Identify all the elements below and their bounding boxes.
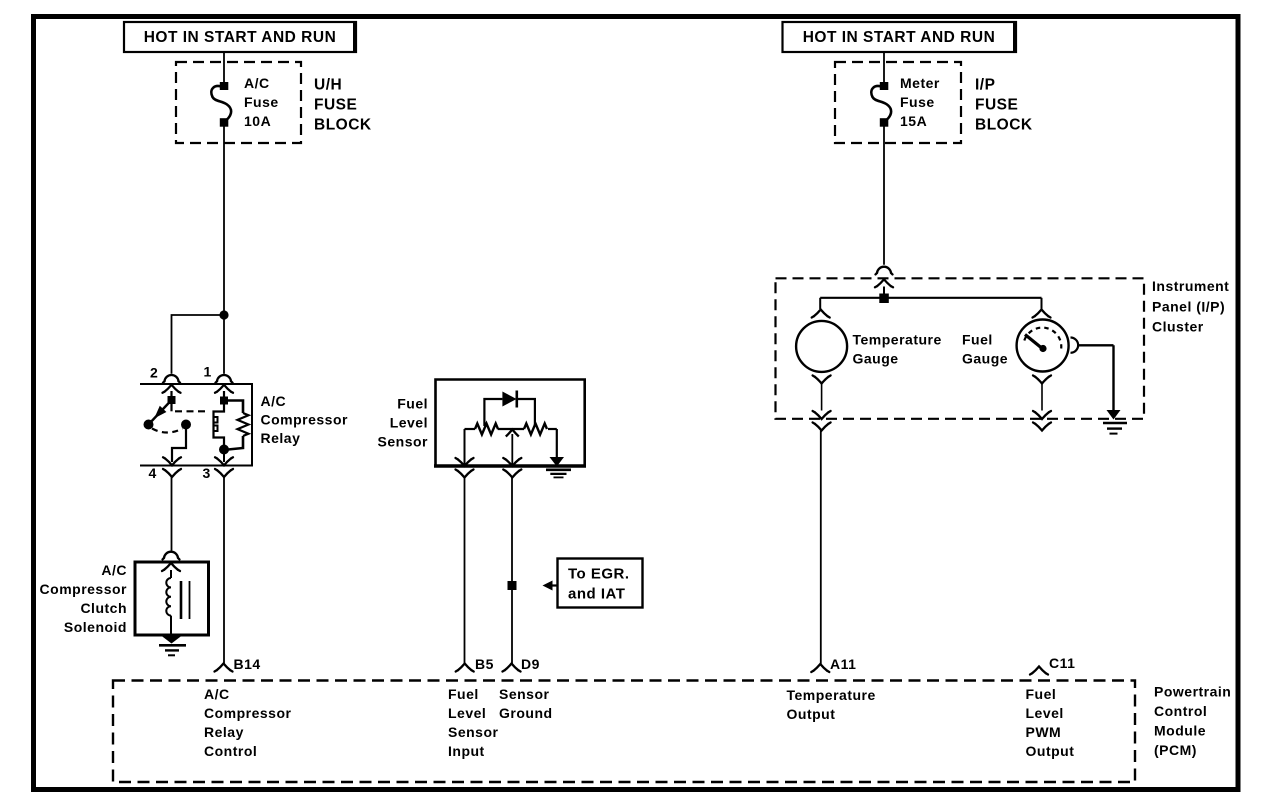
label A/C Compressor Relay Control: [204, 686, 292, 759]
svg-text:C11: C11: [1049, 655, 1075, 671]
wire: A/C fuse down to junction: [223, 126, 225, 315]
connector sensor middle pin: [503, 458, 521, 478]
wire: cluster feed bus: [820, 287, 1041, 310]
svg-text:Level: Level: [448, 705, 486, 721]
svg-text:Compressor: Compressor: [204, 705, 292, 721]
svg-text:Control: Control: [204, 743, 257, 759]
svg-text:Output: Output: [1026, 743, 1075, 759]
svg-text:Panel (I/P): Panel (I/P): [1152, 299, 1225, 315]
svg-text:and IAT: and IAT: [568, 586, 625, 603]
svg-text:Module: Module: [1154, 723, 1206, 739]
label Instrument Panel (I/P) Cluster: [1152, 278, 1229, 335]
hot-in-start-and-run banner left: [124, 22, 356, 52]
label A/C Compressor Clutch Solenoid: [40, 562, 128, 635]
sensor right pin to ground: [546, 429, 571, 477]
svg-text:Gauge: Gauge: [853, 351, 899, 367]
label Fuel Level Sensor Input: [448, 686, 499, 759]
svg-text:Sensor: Sensor: [448, 724, 499, 740]
svg-text:A/C: A/C: [244, 75, 270, 91]
svg-text:Fuel: Fuel: [962, 332, 993, 348]
svg-text:Relay: Relay: [261, 430, 301, 446]
label Fuel Level PWM Output: [1026, 686, 1075, 759]
svg-text:Output: Output: [787, 706, 836, 722]
svg-text:Solenoid: Solenoid: [64, 619, 127, 635]
wire: banner to Meter fuse: [883, 52, 885, 84]
solenoid coil: [166, 570, 171, 635]
wire: junction to relay pin 1: [223, 315, 225, 374]
connector fuel wire at cluster edge: [1033, 411, 1051, 431]
clutch plates: [181, 581, 190, 619]
svg-text:3: 3: [203, 465, 211, 481]
svg-text:BLOCK: BLOCK: [975, 117, 1033, 134]
A/C compressor clutch solenoid box: [135, 562, 209, 635]
svg-text:A/C: A/C: [261, 393, 287, 409]
label U/H FUSE BLOCK: [314, 77, 372, 134]
label Sensor Ground: [499, 686, 553, 721]
connector at solenoid top: [162, 552, 180, 571]
connector temp wire at cluster edge: [813, 411, 831, 431]
svg-text:Sensor: Sensor: [378, 434, 429, 450]
svg-text:FUSE: FUSE: [975, 97, 1018, 114]
sensor variable resistor left: [465, 424, 525, 435]
I/P fuse block dashed box: [835, 62, 961, 143]
svg-text:U/H: U/H: [314, 77, 342, 94]
svg-text:HOT IN START AND RUN: HOT IN START AND RUN: [144, 29, 337, 46]
hot-in-start-and-run banner right: [783, 22, 1017, 52]
To EGR and IAT box: [558, 559, 643, 608]
connector temperature gauge top: [812, 310, 830, 318]
svg-text:PWM: PWM: [1026, 724, 1062, 740]
wire temp gauge to cluster edge: [821, 384, 823, 411]
arrow to EGR box: [543, 581, 559, 591]
label A/C Compressor Relay: [261, 393, 349, 446]
wire: sensor middle pin to D9: [511, 478, 513, 664]
connector fuel gauge bottom: [1033, 376, 1051, 384]
connector pin 4 of relay: [163, 457, 181, 477]
wire fuel gauge to cluster edge: [1041, 384, 1043, 411]
fuse Meter 15A: [871, 82, 891, 127]
label I/P FUSE BLOCK: [975, 77, 1033, 134]
wire: temp gauge to A11: [820, 431, 822, 665]
label Powertrain Control Module (PCM): [1154, 684, 1231, 759]
label Fuel Gauge: [962, 332, 1008, 367]
ground in cluster: [1103, 410, 1127, 434]
connector pin 2 of relay: [163, 375, 181, 393]
label Meter Fuse 15A: [900, 75, 940, 129]
svg-text:To EGR.: To EGR.: [568, 566, 630, 583]
wire: relay pin 3 down to B14: [223, 477, 225, 664]
svg-text:Fuse: Fuse: [900, 94, 935, 110]
svg-text:Fuel: Fuel: [397, 396, 428, 412]
connector sensor left pin: [456, 458, 474, 478]
connector B14: [215, 664, 233, 672]
svg-text:(PCM): (PCM): [1154, 742, 1197, 758]
label Temperature Gauge: [853, 332, 942, 367]
svg-text:Compressor: Compressor: [40, 581, 128, 597]
connector A11: [811, 664, 829, 672]
fuel gauge ground wire: [1071, 338, 1114, 411]
temperature gauge circle: [796, 321, 847, 372]
svg-text:Control: Control: [1154, 703, 1207, 719]
sensor left pin wire: [464, 429, 466, 466]
svg-text:Meter: Meter: [900, 75, 940, 91]
svg-text:Relay: Relay: [204, 724, 244, 740]
svg-text:Powertrain: Powertrain: [1154, 684, 1231, 700]
relay coil parallel resistor: [226, 401, 249, 450]
connector pin 3 of relay: [215, 457, 233, 477]
svg-text:A/C: A/C: [101, 562, 127, 578]
connector C11: [1030, 667, 1048, 675]
connector at cluster top: [875, 267, 893, 288]
svg-text:D9: D9: [521, 656, 540, 672]
wiper arrow: [506, 430, 519, 467]
svg-text:Fuse: Fuse: [244, 94, 279, 110]
junction node above relay: [219, 310, 228, 319]
diode inside sensor: [484, 391, 535, 427]
svg-text:15A: 15A: [900, 113, 927, 129]
svg-text:Fuel: Fuel: [1026, 686, 1057, 702]
svg-text:Sensor: Sensor: [499, 686, 550, 702]
fuse A/C 10A: [211, 82, 231, 127]
sensor variable resistor right: [524, 424, 557, 435]
connector D9: [503, 664, 521, 672]
svg-text:FUSE: FUSE: [314, 97, 357, 114]
svg-text:Input: Input: [448, 743, 485, 759]
svg-text:Temperature: Temperature: [853, 332, 942, 348]
svg-text:Ground: Ground: [499, 705, 553, 721]
connector temperature gauge bottom: [813, 376, 831, 384]
label A/C Fuse 10A: [244, 75, 279, 129]
U/H fuse block dashed box: [176, 62, 301, 143]
wire coil to pin 3: [223, 454, 225, 462]
relay coil: [214, 391, 230, 455]
svg-text:1: 1: [204, 364, 212, 380]
svg-text:I/P: I/P: [975, 77, 995, 94]
relay switch throw contact and dashed travel arc: [152, 420, 191, 463]
wire: relay pin 4 down to solenoid: [171, 477, 173, 551]
junction node on D9 wire: [508, 581, 517, 590]
instrument panel cluster dashed box: [776, 278, 1145, 419]
connector pin 1 of relay: [215, 375, 233, 393]
svg-text:Level: Level: [390, 415, 428, 431]
fuel gauge circle with dial: [1017, 320, 1069, 372]
svg-text:10A: 10A: [244, 113, 271, 129]
wire: Meter fuse down to cluster: [883, 126, 885, 265]
svg-text:Level: Level: [1026, 705, 1064, 721]
label To EGR and IAT: [568, 566, 630, 603]
svg-text:Clutch: Clutch: [80, 600, 127, 616]
label Fuel Level Sensor: [378, 396, 429, 450]
svg-text:Temperature: Temperature: [787, 687, 876, 703]
svg-text:HOT IN START AND RUN: HOT IN START AND RUN: [803, 29, 996, 46]
svg-text:4: 4: [149, 465, 157, 481]
svg-text:Fuel: Fuel: [448, 686, 479, 702]
fuel level sensor box: [434, 380, 586, 467]
label Temperature Output: [787, 687, 876, 722]
powertrain control module dashed box: [113, 681, 1135, 783]
connector fuel gauge top: [1033, 310, 1051, 318]
svg-text:Gauge: Gauge: [962, 351, 1008, 367]
svg-text:Cluster: Cluster: [1152, 319, 1204, 335]
wire: banner to A/C fuse: [223, 52, 225, 84]
svg-text:B5: B5: [475, 656, 494, 672]
A/C compressor relay box (open left side): [140, 384, 252, 466]
svg-text:A/C: A/C: [204, 686, 230, 702]
dashed mechanical link to coil: [172, 404, 209, 411]
svg-text:Instrument: Instrument: [1152, 278, 1229, 294]
relay switch contact from pin 2: [144, 391, 176, 430]
svg-text:BLOCK: BLOCK: [314, 117, 372, 134]
ground below solenoid: [159, 636, 186, 656]
svg-text:A11: A11: [830, 656, 856, 672]
wire: sensor left pin to B5: [464, 478, 466, 664]
svg-text:Compressor: Compressor: [261, 412, 349, 428]
svg-text:B14: B14: [234, 656, 261, 672]
svg-text:2: 2: [150, 365, 158, 381]
wire: branch left from junction: [172, 315, 225, 374]
connector B5: [456, 664, 474, 672]
